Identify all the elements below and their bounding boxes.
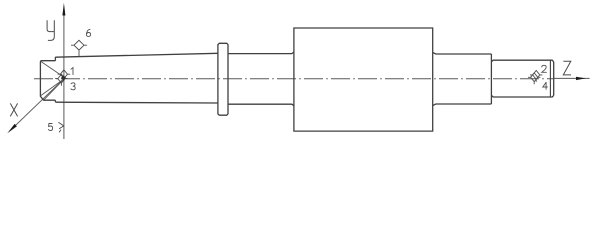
wire: cone line from stub bottom chamfer to origin bbox=[44, 80, 63, 100]
shaft step between stub and taper, top bbox=[54, 57, 56, 61]
node Z axis arrowhead bbox=[576, 77, 586, 80]
node Y axis arrowhead bbox=[62, 3, 65, 16]
point marker 4 diamond bbox=[528, 73, 540, 84]
shaft section 4 top edge bbox=[228, 52, 294, 54]
node Z axis label Z bbox=[563, 61, 571, 75]
point label 6 bbox=[86, 29, 90, 36]
shaft taper section top edge bbox=[55, 53, 218, 57]
point marker 2 diamond bbox=[530, 71, 542, 82]
point label 3 bbox=[71, 83, 75, 90]
point marker 3 diamond bbox=[55, 74, 68, 86]
point marker 1 diamond bbox=[58, 70, 71, 82]
shaft collar flange outline bbox=[218, 43, 228, 115]
shaft step between stub and taper, bottom bbox=[54, 100, 56, 102]
node X axis line bbox=[16, 79, 64, 126]
wire: cone line from stub bottom corner to origin bbox=[41, 80, 63, 96]
point marker 5 half diamond bbox=[58, 122, 63, 132]
point label 5 bbox=[48, 124, 52, 131]
shaft section 4 bottom edge bbox=[228, 104, 294, 106]
shaft journal top edge bbox=[491, 60, 553, 62]
shaft journal bottom edge bbox=[491, 95, 553, 97]
node Z axis line bbox=[554, 77, 590, 79]
shaft left stub section outline bbox=[40, 61, 55, 100]
shaft section 5 bottom edge bbox=[433, 104, 492, 106]
wire: centerline dash-dot axis of shaft bbox=[34, 78, 553, 80]
point marker 6 diamond bbox=[71, 40, 87, 56]
shaft journal end face bbox=[553, 62, 555, 96]
point label 1 bbox=[71, 68, 73, 75]
shaft journal end chamfer line bbox=[549, 60, 551, 97]
point label 4 bbox=[543, 82, 548, 89]
node Y axis label y bbox=[47, 20, 54, 40]
node Y axis line bbox=[63, 14, 65, 139]
point origin dark overlap blob bbox=[61, 75, 66, 80]
shaft section 5 right shoulder face bbox=[490, 54, 492, 104]
node X axis label X bbox=[10, 103, 17, 116]
shaft large block section outline bbox=[294, 28, 433, 131]
point label 2 bbox=[542, 65, 547, 72]
wire: cone line from stub top corner to origin bbox=[41, 61, 63, 76]
shaft taper section bottom edge bbox=[55, 101, 218, 104]
node X axis arrowhead bbox=[7, 124, 17, 133]
shaft section 5 top edge bbox=[433, 52, 492, 54]
